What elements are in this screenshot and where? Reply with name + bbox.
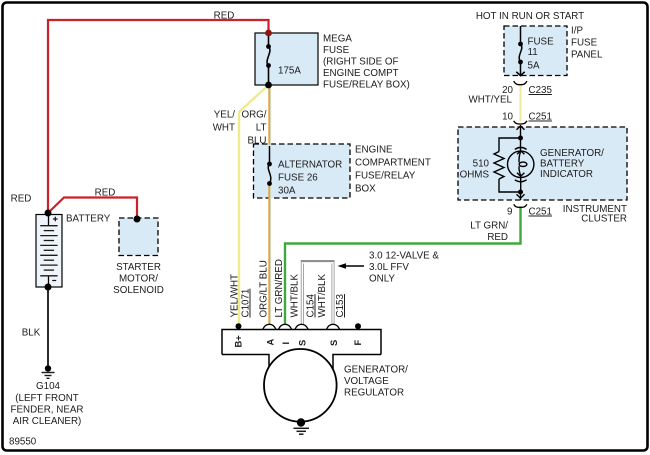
svg-text:FUSE/RELAY BOX): FUSE/RELAY BOX) xyxy=(323,80,410,91)
svg-text:C1071: C1071 xyxy=(241,289,252,318)
svg-text:G104: G104 xyxy=(36,381,61,392)
svg-text:89550: 89550 xyxy=(9,437,37,448)
svg-text:ENGINE: ENGINE xyxy=(355,145,393,156)
svg-text:MOTOR/: MOTOR/ xyxy=(119,274,158,285)
svg-text:GENERATOR/: GENERATOR/ xyxy=(344,365,408,376)
svg-text:STARTER: STARTER xyxy=(116,262,161,273)
svg-text:PANEL: PANEL xyxy=(571,50,603,61)
svg-text:WHT/BLK: WHT/BLK xyxy=(317,273,328,317)
svg-text:YEL/WHT: YEL/WHT xyxy=(230,274,241,318)
svg-text:ENGINE COMPT: ENGINE COMPT xyxy=(323,68,399,79)
svg-text:GENERATOR/: GENERATOR/ xyxy=(540,148,604,159)
svg-text:LT: LT xyxy=(256,123,267,134)
svg-text:MEGA: MEGA xyxy=(323,34,352,45)
svg-text:30A: 30A xyxy=(278,186,296,197)
svg-text:FENDER, NEAR: FENDER, NEAR xyxy=(11,404,84,415)
svg-text:COMPARTMENT: COMPARTMENT xyxy=(355,158,431,169)
svg-text:C235: C235 xyxy=(529,85,553,96)
svg-text:3.0 12-VALVE &: 3.0 12-VALVE & xyxy=(369,251,439,262)
svg-text:F: F xyxy=(352,340,363,346)
svg-text:YEL/: YEL/ xyxy=(214,110,236,121)
svg-text:11: 11 xyxy=(528,47,538,58)
svg-text:LT GRN/RED: LT GRN/RED xyxy=(274,259,285,317)
svg-text:RED: RED xyxy=(214,11,235,22)
svg-text:C251: C251 xyxy=(529,112,552,123)
svg-text:FUSE: FUSE xyxy=(571,38,598,49)
svg-text:(LEFT FRONT: (LEFT FRONT xyxy=(15,393,79,404)
svg-text:ORG/: ORG/ xyxy=(241,110,266,121)
svg-text:VOLTAGE: VOLTAGE xyxy=(344,376,389,387)
svg-text:FUSE 26: FUSE 26 xyxy=(278,173,318,184)
svg-text:10: 10 xyxy=(502,112,513,123)
svg-text:CLUSTER: CLUSTER xyxy=(581,214,627,225)
svg-text:ONLY: ONLY xyxy=(369,274,395,285)
svg-text:C153: C153 xyxy=(335,294,346,318)
svg-text:ALTERNATOR: ALTERNATOR xyxy=(278,160,342,171)
svg-text:FUSE: FUSE xyxy=(323,45,350,56)
svg-text:9: 9 xyxy=(507,207,512,218)
svg-text:B+: B+ xyxy=(233,335,244,348)
svg-text:RED: RED xyxy=(487,232,508,243)
svg-text:5A: 5A xyxy=(528,61,540,72)
svg-text:RED: RED xyxy=(95,188,116,199)
svg-text:(RIGHT SIDE OF: (RIGHT SIDE OF xyxy=(323,57,398,68)
svg-text:3.0L FFV: 3.0L FFV xyxy=(369,262,409,273)
svg-text:HOT IN RUN OR START: HOT IN RUN OR START xyxy=(476,11,584,22)
svg-text:REGULATOR: REGULATOR xyxy=(344,388,404,399)
svg-text:FUSE/RELAY: FUSE/RELAY xyxy=(355,171,416,182)
svg-text:AIR CLEANER): AIR CLEANER) xyxy=(13,416,82,427)
svg-text:C154: C154 xyxy=(306,294,317,318)
svg-text:BOX: BOX xyxy=(355,184,376,195)
svg-text:BLK: BLK xyxy=(22,328,41,339)
svg-text:WHT/YEL: WHT/YEL xyxy=(468,95,512,106)
svg-text:LT GRN/: LT GRN/ xyxy=(470,221,508,232)
svg-text:WHT/BLK: WHT/BLK xyxy=(290,273,301,317)
svg-text:A: A xyxy=(265,339,276,346)
svg-text:BLU: BLU xyxy=(247,136,266,147)
svg-text:S: S xyxy=(297,340,308,346)
svg-text:S: S xyxy=(328,340,339,346)
svg-text:C251: C251 xyxy=(529,207,552,218)
svg-text:BATTERY: BATTERY xyxy=(540,159,585,170)
svg-text:INDICATOR: INDICATOR xyxy=(540,169,593,180)
svg-text:RED: RED xyxy=(11,194,32,205)
svg-text:ORG/LT BLU: ORG/LT BLU xyxy=(259,260,270,317)
svg-text:WHT: WHT xyxy=(213,123,235,134)
svg-text:175A: 175A xyxy=(278,66,301,77)
svg-text:BATTERY: BATTERY xyxy=(66,214,111,225)
svg-text:FUSE: FUSE xyxy=(528,37,555,48)
svg-text:I/P: I/P xyxy=(571,26,583,37)
svg-text:I: I xyxy=(280,342,291,345)
svg-text:SOLENOID: SOLENOID xyxy=(113,285,164,296)
svg-text:OHMS: OHMS xyxy=(460,170,490,181)
svg-text:510: 510 xyxy=(473,159,490,170)
